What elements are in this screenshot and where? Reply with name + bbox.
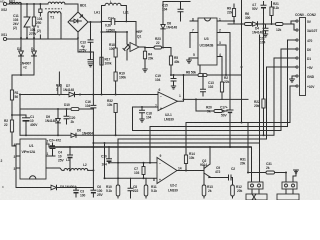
resistor R24 [220, 76, 229, 99]
wire sense to U3 [170, 48, 172, 57]
resistor R13 [202, 176, 213, 198]
resistor R11 [144, 178, 157, 198]
resistor R14 [184, 146, 195, 171]
pin 470 [288, 39, 313, 43]
capacitor C3 [74, 187, 86, 198]
wire x21 [20, 4, 22, 39]
capacitor C10 [101, 147, 112, 167]
opamp U2-2 [153, 154, 182, 193]
capacitor C11 label [13, 14, 19, 30]
diode D6 [71, 129, 93, 138]
resistor R6 [245, 12, 253, 26]
ground right [293, 170, 298, 182]
wire bridge out [88, 21, 102, 23]
label under bridge [78, 32, 93, 53]
relay RL1 [248, 182, 263, 189]
capacitor C14 [102, 17, 127, 33]
resistor R10 [106, 185, 120, 198]
wire bridge minus down [101, 32, 103, 95]
VCC rail top [228, 23, 294, 25]
diode D8 [161, 2, 177, 48]
pin 5V [291, 20, 312, 24]
fuse FU1 [7, 0, 21, 4]
bus line 2 [150, 40, 288, 163]
wire box2 [285, 173, 287, 183]
capacitor C7 [134, 163, 145, 179]
connector CON2 [295, 13, 316, 96]
wire L top [20, 3, 48, 5]
node dots top [20, 3, 41, 5]
U3 pin8 [190, 18, 198, 22]
diode D5 [16, 168, 93, 190]
capacitor C20 [64, 108, 76, 124]
resistor R22 [254, 24, 265, 135]
wire gate riser [102, 22, 128, 61]
diode D10 [64, 103, 93, 111]
wire down-left loop [20, 95, 71, 136]
diode D4 [252, 22, 263, 35]
node dots on 166 [92, 162, 151, 180]
opamp U2-1 [155, 88, 181, 122]
resistor R12 [231, 178, 243, 199]
node Q1 source [144, 47, 146, 49]
varistor RV1 [24, 4, 30, 39]
terminal XS2 [1, 2, 7, 12]
IC U3 UC3842B [198, 18, 217, 65]
label 1N4007 x2 [20, 62, 31, 70]
resistor R26 [276, 23, 284, 33]
resistor R21 [270, 2, 279, 25]
plus input wire U2-2 [105, 177, 158, 179]
resistor R1 [10, 75, 18, 100]
capacitor C8 [128, 178, 138, 198]
node dots bottom [20, 37, 79, 39]
capacitor C21 [259, 24, 268, 45]
wire to relay boxes [252, 143, 260, 182]
capacitor CX 104/275V [29, 4, 37, 39]
capacitor C2 [49, 139, 61, 157]
capacitor C1 [12, 115, 38, 135]
node LA1 [94, 11, 102, 23]
U2-2 output [177, 170, 205, 172]
capacitor C6 [91, 185, 104, 197]
U3 pin1 [217, 18, 234, 22]
zener D9 [45, 109, 60, 135]
wire to Q1 [126, 22, 136, 42]
transformer box T2 [246, 189, 267, 200]
capacitor C16 [85, 100, 96, 108]
transformer box T3 [277, 189, 299, 200]
capacitor C22 [252, 2, 266, 25]
long vertical from rail [241, 0, 243, 123]
capacitor C15 [162, 2, 190, 22]
capacitor C19 [155, 74, 176, 89]
diode D1 [31, 39, 36, 61]
capacitor C13 mains [88, 21, 93, 67]
resistor R16 [247, 162, 287, 174]
wire N bottom [7, 38, 78, 40]
resistor R15 [56, 72, 62, 95]
wire x93 upper [92, 52, 94, 95]
pin 3A/10T [294, 24, 317, 33]
U3 bottom stub [199, 65, 201, 75]
resistor R31 label [240, 158, 246, 166]
resistor R20 [195, 98, 227, 113]
capacitor C18 [140, 107, 153, 122]
U3 pin2 [217, 29, 231, 149]
U2-1 plus input node [141, 106, 143, 108]
wire x248 [247, 123, 249, 173]
comparator input wire [20, 94, 158, 96]
pin D1 [274, 57, 311, 61]
bus dots [25, 122, 265, 149]
wire diodes join [12, 61, 34, 75]
capacitor C17 [220, 106, 233, 118]
node LZ1 [123, 11, 129, 23]
U3 pin7 [190, 29, 198, 48]
U3 pin3 [217, 41, 226, 75]
bus line 7 ground rail [49, 146, 252, 148]
capacitor C21b label [231, 167, 235, 171]
transistor Q2 [200, 146, 229, 178]
wire choke out top [65, 4, 78, 12]
choke T1 [45, 2, 65, 39]
diode D2 [17, 39, 23, 61]
IC U1 VIPer12A [20, 139, 46, 179]
capacitor C4 [58, 146, 73, 171]
U2-1 output [178, 75, 249, 101]
pin GND [290, 75, 315, 82]
bus line 6 [93, 35, 259, 178]
resistor R8 [186, 71, 207, 77]
bus line 5 [118, 67, 267, 185]
inductor L1 [46, 158, 93, 170]
resistor R32 [107, 99, 117, 136]
capacitor C13b [201, 74, 215, 96]
capacitor C12 [36, 4, 42, 39]
pin +5V [241, 66, 314, 70]
resistor R19 [114, 72, 126, 95]
U1 left pins [14, 143, 21, 171]
bus line 1 [186, 86, 290, 147]
terminal XS1 [1, 33, 7, 41]
VCC wire y75 [171, 74, 242, 76]
resistor R17 [100, 57, 112, 65]
U3 pin4 [217, 53, 222, 82]
resistor R2 [4, 100, 16, 146]
diode D7 [63, 84, 75, 97]
resistor R5 [169, 56, 179, 75]
mosfet Q1 [123, 30, 145, 52]
resistor R23 [145, 37, 171, 49]
inductor L [102, 0, 127, 22]
resistor R18 [109, 32, 117, 72]
minus input wire U2-2 [109, 162, 157, 164]
U1 right pins [46, 140, 55, 157]
resistor R9 [227, 4, 236, 24]
pin +10V [290, 85, 315, 89]
bus line 3 [133, 49, 282, 131]
U3 pin5 ground [187, 53, 198, 63]
capacitor C9 [215, 166, 233, 180]
resistor R4 [143, 48, 154, 73]
bus line 4 [20, 58, 274, 135]
wire x93 down [92, 95, 94, 188]
pin D0 [281, 48, 311, 52]
bridge rectifier BD1 [68, 4, 88, 33]
relay RL2 [282, 182, 297, 189]
